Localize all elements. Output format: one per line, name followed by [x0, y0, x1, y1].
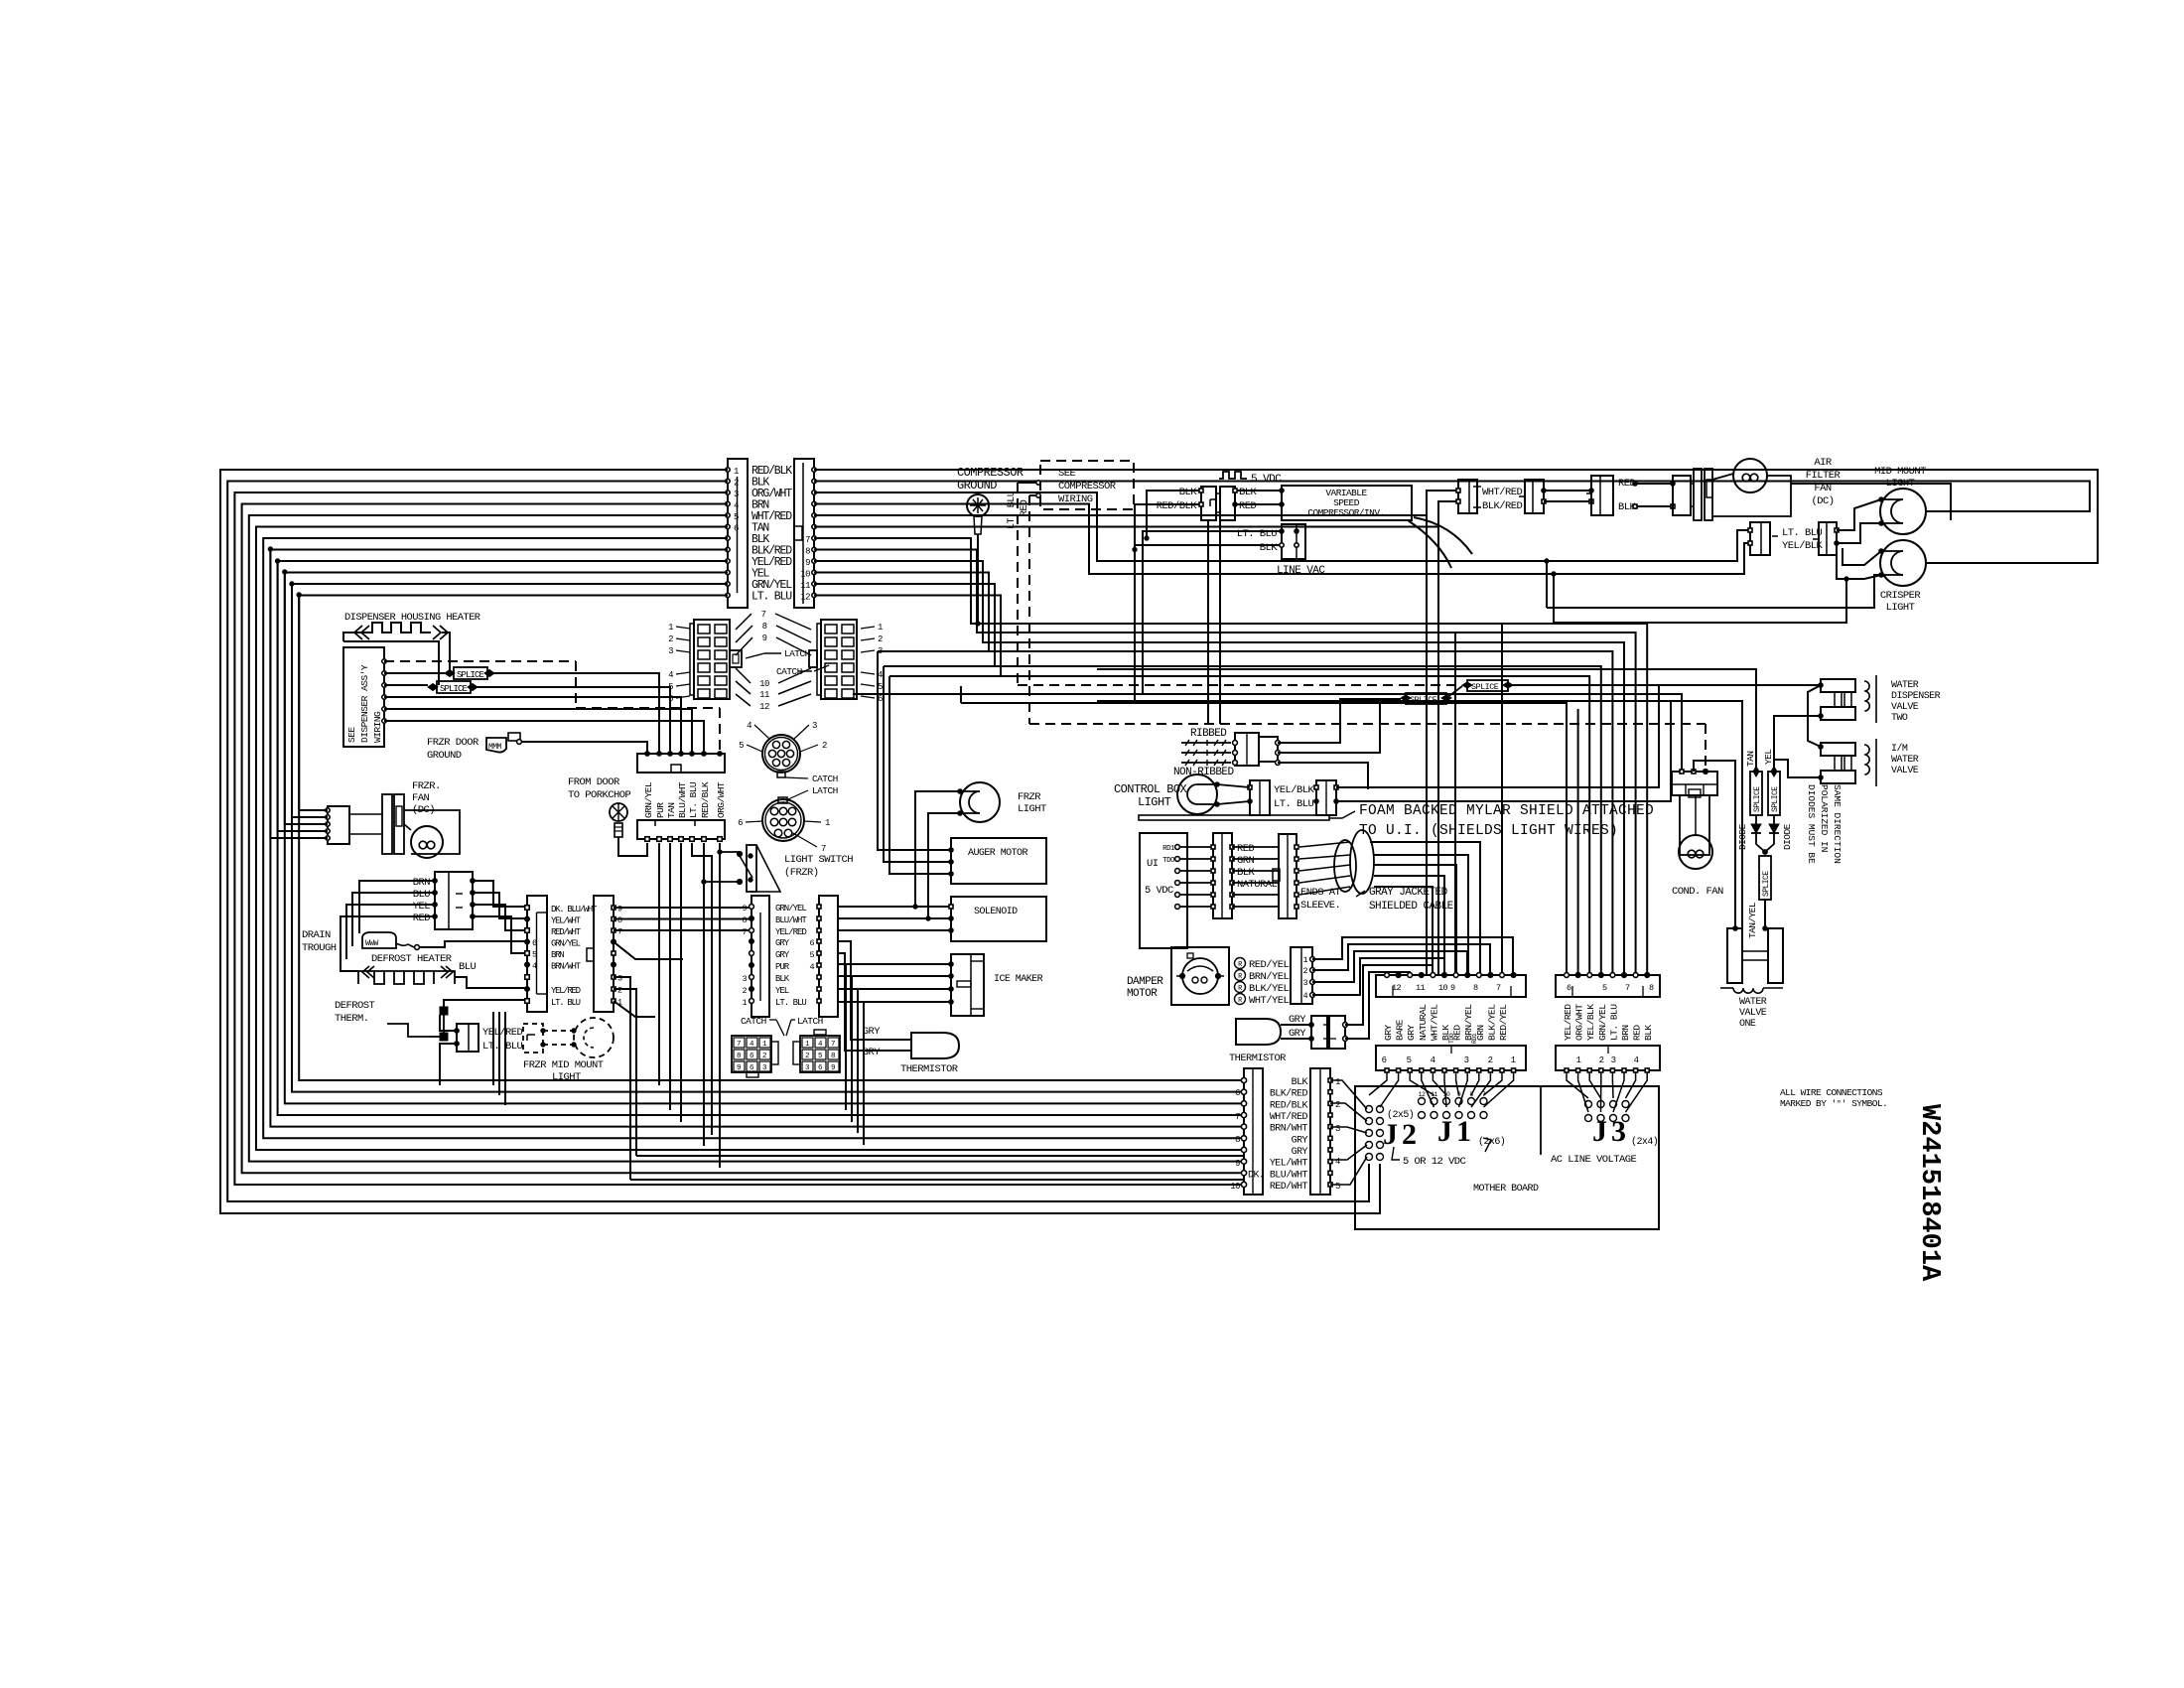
svg-text:MMM: MMM	[488, 743, 502, 752]
ice maker connector	[951, 954, 984, 1016]
wires strip B drop downs	[614, 989, 636, 1156]
dispenser housing heater element	[343, 623, 431, 641]
frzr light lamp	[960, 782, 1000, 822]
tan yel splice vertical	[1759, 856, 1771, 900]
J3 board strip	[1556, 1046, 1660, 1070]
svg-text:LT. BLU: LT. BLU	[482, 1041, 523, 1053]
svg-text:5: 5	[1602, 983, 1607, 993]
switch strip C	[751, 896, 769, 1017]
svg-text:9: 9	[737, 1064, 741, 1072]
frzr door ground symbol	[486, 738, 506, 753]
svg-text:1: 1	[1576, 1055, 1581, 1065]
wire door strip drop to light switch	[692, 843, 712, 1135]
svg-text:12: 12	[1419, 1091, 1426, 1098]
svg-text:VALVE: VALVE	[1891, 702, 1919, 713]
svg-text:ALL WIRE CONNECTIONS: ALL WIRE CONNECTIONS	[1780, 1087, 1883, 1098]
svg-text:LT. BLU: LT. BLU	[751, 591, 792, 604]
svg-text:LINE VAC: LINE VAC	[1277, 565, 1325, 577]
svg-text:3: 3	[1335, 1124, 1340, 1134]
svg-text:RED: RED	[1237, 843, 1255, 855]
svg-text:SOLENOID: SOLENOID	[974, 907, 1018, 917]
svg-text:DISPENSER: DISPENSER	[1891, 691, 1941, 702]
door light connector B	[1819, 522, 1837, 555]
svg-text:6: 6	[532, 938, 537, 948]
UI box	[1140, 833, 1187, 948]
svg-text:W241518401A: W241518401A	[1914, 1104, 1944, 1282]
J2 top fan wires	[1369, 1072, 1387, 1095]
svg-text:DRAIN: DRAIN	[302, 929, 331, 941]
svg-text:CATCH: CATCH	[812, 774, 838, 784]
svg-text:GRY: GRY	[1383, 1025, 1394, 1041]
ribbed wire symbols	[1181, 742, 1231, 744]
wire band mid 2	[814, 550, 1636, 976]
svg-text:5: 5	[668, 682, 673, 692]
wire band mid 3	[814, 561, 1624, 975]
wire BLK to mid mount light	[814, 482, 2090, 512]
svg-text:J3: J3	[1592, 1115, 1630, 1148]
svg-text:10: 10	[759, 679, 769, 689]
valve one coil	[1733, 988, 1763, 993]
splice 2	[437, 681, 471, 693]
svg-text:LT. BLU: LT. BLU	[775, 998, 806, 1008]
svg-text:WIRING: WIRING	[1058, 493, 1093, 505]
svg-text:9: 9	[1450, 983, 1455, 993]
svg-text:BRN: BRN	[413, 877, 431, 889]
svg-text:9: 9	[805, 558, 810, 568]
svg-text:6: 6	[1382, 1055, 1387, 1065]
svg-text:GROUND: GROUND	[957, 479, 997, 492]
svg-text:4: 4	[809, 962, 814, 972]
wires bottom connector to J2	[1330, 1080, 1367, 1109]
wire ORG/WHT to door light connector	[814, 492, 1750, 561]
svg-text:COMPRESSOR: COMPRESSOR	[957, 466, 1024, 480]
svg-text:WHT/YEL: WHT/YEL	[1429, 1004, 1439, 1041]
wire compressor connector drop A	[1207, 520, 1209, 724]
svg-text:ONE: ONE	[1739, 1019, 1756, 1030]
svg-text:BLK: BLK	[1292, 1077, 1308, 1088]
wire BRN to door light connector	[814, 504, 1750, 575]
svg-text:SPLICE: SPLICE	[1410, 695, 1437, 705]
ribbed connector	[1235, 733, 1259, 766]
svg-text:SEE: SEE	[1058, 468, 1076, 480]
svg-text:11: 11	[1431, 1091, 1437, 1098]
wires fan connector to strip	[473, 881, 527, 907]
tan splice vertical	[1750, 772, 1762, 815]
svg-text:LT. BLU: LT. BLU	[551, 998, 581, 1008]
damper motor box	[1171, 947, 1229, 1005]
svg-text:DIODES MUST BE: DIODES MUST BE	[1806, 784, 1817, 864]
svg-text:TAN: TAN	[666, 803, 677, 818]
svg-text:PUR: PUR	[655, 802, 666, 818]
air filter fan lamp	[1733, 459, 1767, 492]
svg-text:2: 2	[742, 986, 747, 996]
svg-text:YEL/RED: YEL/RED	[1563, 1004, 1573, 1041]
svg-text:5: 5	[739, 741, 744, 751]
svg-text:BLK: BLK	[1643, 1025, 1654, 1041]
svg-text:CRISPER: CRISPER	[1880, 590, 1922, 602]
motherboard box	[1355, 1086, 1659, 1229]
svg-text:BLK/RED: BLK/RED	[1270, 1088, 1308, 1100]
svg-text:6: 6	[668, 694, 673, 704]
wire BLK connector to inverter	[1235, 490, 1282, 492]
svg-text:MOTHER BOARD: MOTHER BOARD	[1473, 1184, 1539, 1195]
svg-text:RED/YEL: RED/YEL	[1498, 1004, 1509, 1041]
svg-text:TROUGH: TROUGH	[302, 942, 337, 954]
svg-text:CONTROL BOX: CONTROL BOX	[1114, 782, 1187, 796]
svg-text:1: 1	[742, 998, 747, 1008]
svg-text:YEL: YEL	[775, 986, 789, 996]
svg-text:LATCH: LATCH	[797, 1016, 823, 1027]
svg-text:YEL/RED: YEL/RED	[482, 1027, 523, 1039]
svg-text:8: 8	[1649, 983, 1654, 993]
svg-text:RED/YEL: RED/YEL	[1249, 959, 1290, 971]
svg-text:THERMISTOR: THERMISTOR	[1229, 1053, 1286, 1064]
svg-text:BLK: BLK	[1179, 487, 1198, 498]
svg-text:YEL/WHT: YEL/WHT	[551, 916, 582, 926]
svg-text:12: 12	[800, 593, 810, 603]
door strip upper	[637, 754, 725, 773]
variable speed compressor box	[1282, 486, 1412, 520]
svg-text:CATCH: CATCH	[741, 1016, 766, 1027]
wire splice to valve one	[1764, 900, 1766, 928]
wire drain trough to strip	[419, 941, 527, 947]
mid mount light lamp	[1880, 489, 1926, 534]
svg-text:RIBBED: RIBBED	[1190, 728, 1227, 740]
svg-text:WHT/YEL: WHT/YEL	[1249, 995, 1290, 1007]
wires yel red lt blu	[440, 1015, 457, 1031]
wire J1 riser tall	[1454, 633, 1456, 975]
svg-text:COMPRESSOR/INV.: COMPRESSOR/INV.	[1307, 507, 1384, 518]
svg-text:SPLICE: SPLICE	[1771, 786, 1780, 812]
svg-text:11: 11	[759, 690, 769, 700]
svg-text:4: 4	[1634, 1055, 1639, 1065]
svg-text:1: 1	[878, 623, 883, 633]
svg-text:1: 1	[1302, 955, 1307, 965]
foam shield leader	[1329, 811, 1355, 818]
svg-text:PUR: PUR	[775, 962, 790, 972]
svg-text:GRY: GRY	[1292, 1147, 1308, 1158]
svg-text:GRY: GRY	[775, 950, 790, 960]
wire BLK to fan	[1635, 505, 1673, 507]
wire BLK line vac	[1135, 545, 1282, 703]
bottom band branch wires right	[636, 1155, 1244, 1157]
svg-text:GRAY JACKETED: GRAY JACKETED	[1369, 887, 1448, 899]
door light connector pair	[1750, 522, 1770, 555]
svg-text:(DC): (DC)	[1811, 495, 1834, 507]
svg-text:GRN: GRN	[1237, 855, 1255, 867]
svg-text:3: 3	[812, 721, 817, 731]
mid drop verticals to bottom band	[845, 964, 847, 1110]
svg-text:BLK: BLK	[775, 974, 790, 984]
wire door strip drop 2	[669, 843, 671, 1110]
svg-text:6: 6	[809, 938, 814, 948]
svg-text:TAN: TAN	[1745, 752, 1756, 767]
svg-text:AUGER MOTOR: AUGER MOTOR	[968, 848, 1028, 859]
2x6 connector right	[821, 620, 857, 699]
thermistor 2 bullet	[1236, 1019, 1281, 1045]
damper motor circled R labels	[1235, 958, 1246, 969]
wires fan connector left	[359, 881, 435, 933]
svg-text:9: 9	[762, 633, 767, 643]
svg-text:2: 2	[822, 741, 827, 751]
wire crisper feed 1	[1547, 575, 1881, 608]
svg-text:TAN/YEL: TAN/YEL	[1747, 902, 1758, 938]
svg-text:TO U.I. (SHIELDS LIGHT WIRES): TO U.I. (SHIELDS LIGHT WIRES)	[1359, 823, 1618, 839]
svg-text:(FRZR): (FRZR)	[784, 867, 819, 879]
fanout sleeve to shield	[1299, 842, 1350, 847]
svg-text:UI: UI	[1147, 858, 1159, 870]
svg-text:CATCH: CATCH	[776, 666, 802, 677]
yel red lt blu connector	[457, 1024, 478, 1052]
svg-text:6: 6	[1235, 1088, 1240, 1098]
svg-text:LIGHT SWITCH: LIGHT SWITCH	[784, 854, 853, 866]
svg-text:BARE: BARE	[1395, 1019, 1406, 1041]
wire band mid 7 cond fan feed	[853, 694, 1682, 772]
svg-text:BLK: BLK	[1237, 867, 1256, 879]
see compressor wiring box	[1040, 461, 1134, 509]
wires diodes join	[1756, 833, 1765, 852]
svg-text:12: 12	[759, 702, 769, 712]
splice 3	[1467, 680, 1508, 691]
svg-text:6: 6	[1567, 983, 1571, 993]
connector P2 pins	[812, 468, 816, 472]
svg-text:10: 10	[1438, 983, 1448, 993]
svg-text:2: 2	[668, 634, 673, 644]
line vac connector	[1282, 524, 1305, 559]
svg-text:NATURAL: NATURAL	[1418, 1004, 1429, 1041]
shield cable long wires	[1374, 842, 1480, 975]
svg-text:5 OR 12 VDC: 5 OR 12 VDC	[1403, 1156, 1466, 1168]
svg-text:SPLICE: SPLICE	[440, 684, 468, 694]
svg-text:WHT/RED: WHT/RED	[1270, 1111, 1308, 1123]
J1 pin circles	[1419, 1098, 1426, 1105]
svg-text:3: 3	[1302, 978, 1307, 988]
svg-text:RED/BLK: RED/BLK	[1270, 1099, 1308, 1111]
svg-text:8: 8	[617, 915, 622, 925]
wire band mid 1	[814, 538, 1647, 975]
svg-text:LT. BLU: LT. BLU	[1782, 527, 1823, 539]
svg-text:LT. BLU: LT. BLU	[688, 781, 699, 818]
svg-text:LT. BLU: LT. BLU	[1608, 1004, 1619, 1041]
wire im valve bottom	[1774, 760, 1821, 777]
defrost heater element	[358, 971, 455, 984]
svg-text:4: 4	[1335, 1157, 1340, 1167]
wire splice3 to valve	[1508, 684, 1821, 686]
cond fan lamp	[1679, 835, 1712, 869]
svg-text:9: 9	[742, 904, 747, 914]
5 VDC squarewave symbol	[1219, 472, 1247, 479]
wires to light switch	[720, 851, 740, 853]
wires ribbed right	[1278, 699, 1401, 743]
svg-text:2: 2	[1488, 1055, 1493, 1065]
light switch frzr	[747, 845, 756, 892]
svg-text:MID MOUNT: MID MOUNT	[1874, 466, 1926, 478]
svg-text:(2x4): (2x4)	[1631, 1136, 1658, 1148]
wire RED/BLK into compressor connector	[1135, 504, 1201, 550]
svg-text:(2x6): (2x6)	[1478, 1136, 1505, 1148]
wire BLK long bottom run	[227, 482, 1369, 1202]
J2 J1 harness strip	[1376, 975, 1526, 997]
svg-text:4: 4	[747, 721, 751, 731]
svg-text:2: 2	[1599, 1055, 1604, 1065]
svg-text:7: 7	[1496, 983, 1501, 993]
svg-text:FOAM BACKED MYLAR SHIELD ATTAC: FOAM BACKED MYLAR SHIELD ATTACHED	[1359, 803, 1654, 819]
svg-text:DK. BLU/WHT: DK. BLU/WHT	[1248, 1169, 1308, 1181]
wire strip B pin1 diag	[614, 1001, 655, 1017]
svg-text:2: 2	[1302, 966, 1307, 976]
wire band mid 4	[814, 573, 989, 652]
svg-text:1: 1	[825, 818, 830, 828]
wire cond fan second	[1694, 761, 1735, 928]
svg-text:RD1: RD1	[1162, 845, 1175, 853]
svg-text:BLU/WHT: BLU/WHT	[677, 781, 688, 818]
svg-text:BRN/WHT: BRN/WHT	[1270, 1123, 1308, 1135]
svg-text:BLK/YEL: BLK/YEL	[1249, 983, 1290, 995]
svg-text:GRN/YEL: GRN/YEL	[643, 781, 654, 818]
svg-text:RED/WHT: RED/WHT	[1270, 1181, 1308, 1193]
svg-text:GRY: GRY	[775, 938, 790, 948]
splice 1	[454, 667, 487, 679]
svg-text:FILTER: FILTER	[1806, 470, 1842, 482]
svg-text:LATCH: LATCH	[784, 648, 810, 659]
svg-text:RED/WHT: RED/WHT	[551, 927, 582, 937]
wire J1 riser 2	[1501, 624, 1503, 975]
svg-text:3: 3	[668, 646, 673, 656]
svg-text:8: 8	[1473, 983, 1478, 993]
2x6 connector left	[694, 620, 730, 699]
svg-text:BLK/RED: BLK/RED	[1482, 500, 1523, 512]
fan connector pair A	[1458, 480, 1477, 513]
svg-text:BLK/YEL: BLK/YEL	[1486, 1004, 1497, 1041]
J3 top fan wires	[1567, 1072, 1588, 1098]
svg-text:COMPRESSOR: COMPRESSOR	[1058, 481, 1117, 492]
crisper light lamp	[1880, 540, 1926, 586]
svg-text:8: 8	[1235, 1135, 1240, 1145]
wire RED/BLK long bottom run	[220, 470, 1380, 1213]
wire valve two to im valve	[1808, 685, 1821, 747]
dispenser box pins	[382, 659, 386, 663]
2x6 connector right catch tab	[809, 650, 817, 667]
svg-text:ORG/WHT: ORG/WHT	[716, 781, 727, 818]
svg-text:LIGHT: LIGHT	[552, 1071, 581, 1083]
svg-text:7: 7	[831, 1041, 835, 1049]
svg-text:FRZR: FRZR	[1018, 791, 1041, 803]
svg-text:J2: J2	[1383, 1118, 1421, 1151]
svg-text:8: 8	[742, 915, 747, 925]
svg-text:GRY: GRY	[1292, 1135, 1308, 1146]
grid connector right 3x3	[800, 1036, 840, 1072]
round connector 8-pin	[762, 799, 804, 841]
svg-text:LATCH: LATCH	[812, 785, 838, 796]
svg-text:10: 10	[1230, 1182, 1240, 1192]
svg-text:GROUND: GROUND	[427, 750, 462, 762]
air filter fan motor	[1673, 476, 1691, 515]
diode left	[1755, 815, 1757, 824]
svg-text:9: 9	[831, 1064, 835, 1072]
wires ice maker	[838, 963, 951, 965]
wire TAN feed	[1097, 669, 1756, 772]
svg-text:RED: RED	[413, 913, 431, 924]
J2 pin circles	[1366, 1106, 1373, 1113]
svg-text:5: 5	[809, 950, 814, 960]
svg-text:4: 4	[668, 670, 673, 680]
svg-text:4: 4	[1302, 991, 1307, 1001]
svg-text:7: 7	[761, 610, 766, 620]
wires light to connector	[1217, 784, 1250, 787]
svg-text:8: 8	[737, 1053, 741, 1060]
svg-text:SHIELDED CABLE: SHIELDED CABLE	[1369, 901, 1454, 913]
svg-text:DEFROST: DEFROST	[335, 1000, 375, 1012]
svg-text:2: 2	[878, 634, 883, 644]
svg-text:SLEEVE.: SLEEVE.	[1300, 900, 1340, 912]
svg-text:MARKED BY '°' SYMBOL.: MARKED BY '°' SYMBOL.	[1780, 1098, 1887, 1109]
svg-text:3: 3	[617, 974, 622, 984]
svg-text:7: 7	[805, 535, 810, 545]
thermistor connector	[1311, 1016, 1327, 1049]
shield top wire	[1370, 841, 1387, 843]
svg-text:8: 8	[805, 547, 810, 557]
defrost thermostat symbol	[387, 1024, 429, 1037]
svg-text:WHT/RED: WHT/RED	[1482, 487, 1523, 498]
cond fan connector	[1672, 772, 1717, 795]
connector P2 notch	[794, 526, 802, 540]
svg-text:1: 1	[668, 623, 673, 633]
wire band mid 6	[814, 596, 1001, 677]
J3 pin circles	[1585, 1101, 1592, 1108]
svg-text:COND. FAN: COND. FAN	[1672, 886, 1723, 898]
svg-text:5: 5	[1407, 1055, 1412, 1065]
svg-text:FRZR DOOR: FRZR DOOR	[427, 737, 479, 749]
frzr mid mount dashed lamp	[574, 1018, 614, 1057]
svg-text:TDO: TDO	[1162, 857, 1175, 865]
svg-text:FAN: FAN	[412, 792, 430, 804]
svg-text:YEL/BLK: YEL/BLK	[1274, 784, 1315, 796]
svg-text:7: 7	[1235, 1112, 1240, 1122]
svg-text:THERMISTOR: THERMISTOR	[900, 1063, 959, 1075]
svg-text:J1: J1	[1437, 1115, 1475, 1148]
svg-text:10: 10	[800, 570, 810, 580]
door strip lower	[637, 820, 725, 839]
svg-text:AC LINE VOLTAGE: AC LINE VOLTAGE	[1551, 1154, 1637, 1166]
connector P2 housing right	[794, 459, 814, 608]
damper strip	[1291, 947, 1312, 1004]
svg-text:12: 12	[1392, 983, 1402, 993]
svg-text:LT. BLU: LT. BLU	[1237, 528, 1278, 540]
svg-text:9: 9	[617, 905, 622, 914]
freezer harness strip A	[527, 896, 547, 1012]
wires solenoid	[838, 906, 951, 908]
wire to fan connector C2	[1544, 500, 1591, 502]
svg-text:I/M: I/M	[1891, 743, 1908, 755]
wires thermistor 2	[1281, 1024, 1311, 1026]
wire RED connector to inverter	[1235, 503, 1282, 505]
svg-text:BLU: BLU	[459, 961, 477, 973]
door lamp symbol	[610, 803, 627, 821]
wire J3 pin2 riser	[1577, 709, 1579, 975]
switch strip D	[819, 896, 838, 1017]
svg-text:NATURAL: NATURAL	[1237, 879, 1278, 891]
wire door strip drop 6	[719, 843, 721, 1168]
water dispenser valve two	[1821, 679, 1855, 692]
svg-text:BRN: BRN	[551, 950, 564, 960]
svg-text:2: 2	[617, 986, 622, 996]
svg-text:THERM.: THERM.	[335, 1013, 369, 1025]
wire ground to door strip	[521, 742, 647, 754]
wire dashed LT.BLU from compressor box	[1018, 482, 1035, 484]
svg-text:DIODE: DIODE	[1737, 823, 1748, 850]
svg-text:FRZR.: FRZR.	[412, 780, 441, 792]
dashed wire ORG/WHT to door strip	[384, 660, 576, 662]
